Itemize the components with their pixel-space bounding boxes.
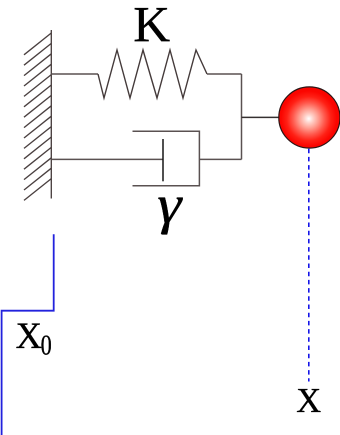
blue reference step line x0	[2, 234, 54, 435]
wire: wall to spring	[51, 73, 98, 75]
wire: wall to damper piston rod	[51, 158, 163, 160]
svg-text:X: X	[296, 382, 321, 420]
wire: right vertical link	[241, 74, 243, 159]
wire: link to mass	[242, 116, 281, 118]
wire: damper to right link	[199, 158, 241, 160]
damper piston	[162, 139, 164, 181]
label gamma	[157, 174, 183, 235]
svg-text:X: X	[16, 315, 42, 356]
svg-text:0: 0	[41, 329, 52, 361]
spring K (zigzag)	[98, 50, 207, 98]
damper cylinder	[133, 131, 200, 186]
wire: spring to right link	[207, 73, 242, 75]
wall (fixed support)	[24, 30, 51, 200]
svg-text:γ: γ	[157, 174, 183, 235]
dashed blue line x	[308, 149, 310, 382]
svg-text:K: K	[133, 0, 170, 54]
